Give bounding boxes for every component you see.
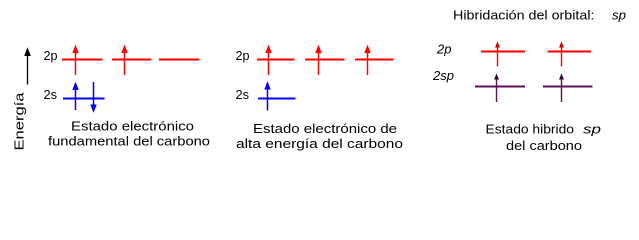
2p orbital line 2 (hybrid state) bbox=[548, 51, 592, 53]
electron up arrow on 2p line 1 (excited state) bbox=[266, 46, 271, 75]
2p orbital line 2 (excited state) bbox=[305, 59, 345, 61]
2s orbital line (excited state) bbox=[258, 98, 296, 100]
svg-text:fundamental del carbono: fundamental del carbono bbox=[48, 134, 210, 149]
svg-text:2p: 2p bbox=[236, 48, 250, 63]
2p orbital line 1 (ground state) bbox=[62, 59, 103, 61]
svg-text:2s: 2s bbox=[236, 87, 250, 102]
svg-text:alta energía del carbono: alta energía del carbono bbox=[236, 136, 403, 151]
svg-text:sp: sp bbox=[583, 122, 601, 137]
2p orbital line 3 (ground state) bbox=[159, 59, 200, 61]
electron up arrow on hybrid 2p line 2 bbox=[559, 42, 564, 67]
electron up arrow on 2p line 2 (excited state) bbox=[316, 46, 321, 75]
2p orbital line 1 (hybrid state) bbox=[481, 51, 525, 53]
electron up arrow on 2sp line 2 bbox=[559, 74, 564, 103]
electron up arrow on 2s line (excited state) bbox=[265, 83, 270, 111]
svg-text:2s: 2s bbox=[44, 87, 58, 102]
2s orbital line (ground state) bbox=[63, 98, 105, 100]
svg-text:Energía: Energía bbox=[12, 92, 27, 151]
svg-text:del carbono: del carbono bbox=[506, 138, 582, 153]
electron up arrow on 2p line 2 (ground state) bbox=[122, 46, 127, 75]
energy axis arrow bbox=[25, 49, 30, 85]
2sp orbital line 2 (hybrid state) bbox=[543, 86, 593, 88]
2p orbital line 3 (excited state) bbox=[355, 59, 394, 61]
svg-text:Hibridación del orbital:: Hibridación del orbital: bbox=[453, 8, 595, 23]
svg-text:2p: 2p bbox=[44, 48, 58, 63]
svg-text:2sp: 2sp bbox=[432, 68, 454, 83]
2sp orbital line 1 (hybrid state) bbox=[475, 86, 525, 88]
electron up arrow on hybrid 2p line 1 bbox=[495, 42, 500, 67]
svg-text:sp: sp bbox=[612, 8, 626, 23]
electron up arrow on 2p line 1 (ground state) bbox=[73, 46, 78, 75]
svg-text:Estado hibrido: Estado hibrido bbox=[486, 122, 575, 137]
2p orbital line 1 (excited state) bbox=[257, 59, 295, 61]
electron up arrow on 2s line (ground state) bbox=[73, 83, 78, 110]
svg-text:2p: 2p bbox=[436, 42, 451, 57]
svg-text:Estado electrónico de: Estado electrónico de bbox=[253, 121, 397, 136]
2p orbital line 2 (ground state) bbox=[112, 59, 152, 61]
electron down arrow on 2s line (ground state) bbox=[91, 82, 96, 112]
electron up arrow on 2sp line 1 bbox=[494, 74, 499, 103]
electron up arrow on 2p line 3 (excited state) bbox=[365, 46, 370, 75]
svg-text:Estado electrónico: Estado electrónico bbox=[71, 119, 194, 134]
